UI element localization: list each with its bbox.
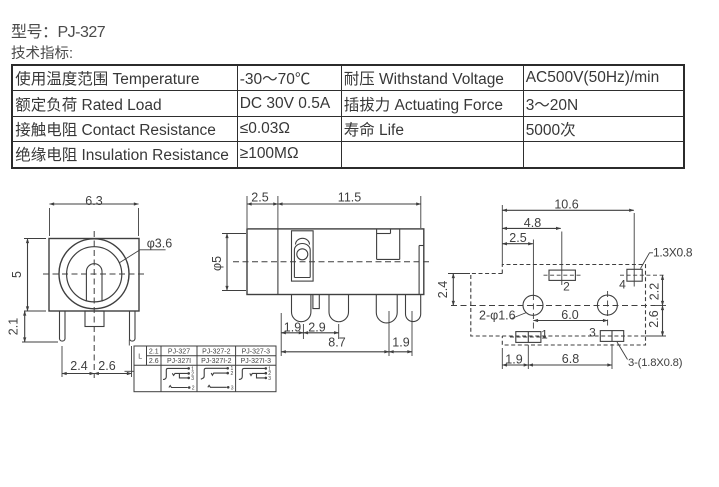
title model number [11, 18, 105, 42]
svg-text:3: 3 [589, 326, 596, 340]
front view center tab [85, 311, 104, 327]
side view leg 1 [292, 295, 311, 322]
svg-text:2.5: 2.5 [251, 191, 268, 205]
svg-text:2: 2 [231, 371, 234, 377]
svg-text:φ5: φ5 [210, 256, 224, 271]
svg-text:6.3: 6.3 [85, 194, 102, 208]
svg-text:2.6: 2.6 [149, 358, 159, 365]
label 3-(1.8X0.8) with leader [617, 342, 683, 369]
extension line through left hole (2.5 dim) [532, 240, 534, 295]
dim 2.4 left of footprint [436, 274, 470, 306]
dim 6.3 [50, 194, 139, 236]
subtitle technical specs [11, 42, 73, 63]
dim 2.9 [303, 321, 338, 340]
footprint horizontal centerline [451, 305, 655, 307]
svg-text:PJ-327-3: PJ-327-3 [242, 349, 271, 356]
svg-text:2: 2 [192, 386, 195, 392]
label 1.3X0.8 with leader [641, 246, 693, 269]
dim 4.8 [502, 216, 560, 230]
svg-text:2: 2 [563, 280, 570, 294]
svg-text:3: 3 [191, 376, 194, 382]
front view pin slot [86, 264, 102, 302]
extension line pad2 (4.8 dim) [561, 232, 563, 286]
svg-text:2.6: 2.6 [647, 310, 661, 327]
label 2-phi1.6 with leader [479, 309, 527, 323]
label phi3.6 with leader [119, 236, 172, 262]
dim 6.0 [533, 308, 607, 322]
front view inner circle [67, 247, 122, 302]
variants table frame [134, 346, 276, 392]
side view right step [419, 246, 424, 295]
svg-text:PJ-327I: PJ-327I [167, 358, 191, 365]
svg-text:1.9: 1.9 [505, 353, 522, 367]
footprint outline A [502, 265, 645, 346]
extension line pad4 (10.6 dim) [633, 213, 635, 287]
front view body [49, 239, 139, 312]
pad 3 [600, 331, 623, 342]
dim phi5 left [210, 234, 246, 291]
hole left 1.6 [523, 294, 543, 331]
svg-text:3: 3 [268, 376, 271, 382]
schematic PJ-327 cell [163, 366, 195, 391]
svg-text:L: L [138, 354, 142, 361]
svg-text:10.6: 10.6 [554, 198, 578, 212]
side view centerline [233, 261, 429, 263]
dim 2.4 [62, 346, 94, 377]
spec table [11, 64, 685, 169]
schematic PJ-327-3 cell [239, 366, 271, 382]
side view switch contact [292, 231, 314, 281]
front view outer circle [59, 239, 129, 309]
side view stub between legs 1-2 [313, 295, 319, 309]
svg-text:6.0: 6.0 [561, 308, 578, 322]
dim 2.5 top [247, 191, 278, 229]
svg-text:2.1: 2.1 [7, 318, 21, 335]
svg-text:4.8: 4.8 [524, 216, 541, 230]
svg-text:PJ-327: PJ-327 [168, 349, 190, 356]
front view left leg [60, 311, 66, 341]
svg-text:1.9: 1.9 [392, 336, 409, 350]
svg-text:11.5: 11.5 [338, 191, 361, 205]
dim 5 [10, 239, 46, 312]
dim 2.6 [94, 346, 131, 377]
dim 6.8 bottom [528, 344, 612, 369]
dim 1.9 lower right [389, 311, 412, 356]
svg-text:6.8: 6.8 [562, 352, 579, 366]
svg-text:PJ-327-2: PJ-327-2 [202, 349, 231, 356]
svg-text:2.1: 2.1 [149, 349, 159, 356]
svg-text:8.7: 8.7 [328, 336, 345, 350]
side view leg 2 [329, 295, 349, 322]
dim 2.5 right view [502, 231, 533, 245]
hole right 1.6 [597, 291, 617, 327]
dim 11.5 top [278, 191, 421, 229]
side view body [247, 229, 424, 295]
front view vertical centerline [93, 231, 95, 378]
svg-text:2.4: 2.4 [70, 359, 87, 373]
dim 8.7 [281, 336, 389, 352]
svg-text:5: 5 [10, 271, 24, 278]
pad 4 [620, 269, 666, 281]
side view top notch [377, 229, 400, 260]
dim 2.2 right [648, 275, 663, 305]
svg-text:2.2: 2.2 [648, 283, 662, 300]
svg-text:2-φ1.6: 2-φ1.6 [479, 309, 516, 323]
dim 2.1 [7, 311, 59, 342]
footprint outline B [471, 274, 646, 337]
pad 1 [510, 332, 546, 343]
svg-text:1: 1 [541, 328, 548, 342]
schematic PJ-327-2 cell [201, 366, 234, 391]
svg-text:φ3.6: φ3.6 [147, 236, 173, 250]
pad 2 [544, 270, 582, 280]
svg-text:4: 4 [619, 278, 626, 292]
svg-text:PJ-327I-3: PJ-327I-3 [241, 358, 271, 365]
side view leg 4 [406, 295, 421, 322]
svg-text:PJ-327I-2: PJ-327I-2 [201, 358, 231, 365]
front view horizontal centerline [43, 273, 147, 275]
variants table tick marks [128, 340, 130, 346]
dim 1.9 bottom [502, 345, 528, 369]
side view front panel divider [277, 229, 279, 295]
svg-text:1.3X0.8: 1.3X0.8 [653, 246, 693, 260]
front view right leg [130, 311, 136, 341]
side view leg 3 [376, 295, 397, 323]
svg-text:2.9: 2.9 [308, 321, 325, 335]
dim 10.6 [502, 198, 634, 265]
svg-text:2.5: 2.5 [509, 231, 526, 245]
svg-text:1.9: 1.9 [284, 321, 301, 335]
variants table texts [138, 349, 271, 366]
dim 1.9 lower left [281, 313, 303, 356]
dim 2.6 right [646, 306, 667, 337]
svg-text:2.6: 2.6 [98, 359, 115, 373]
svg-text:2.4: 2.4 [436, 281, 450, 298]
svg-text:3-(1.8X0.8): 3-(1.8X0.8) [628, 357, 683, 369]
svg-text:3: 3 [231, 385, 234, 391]
